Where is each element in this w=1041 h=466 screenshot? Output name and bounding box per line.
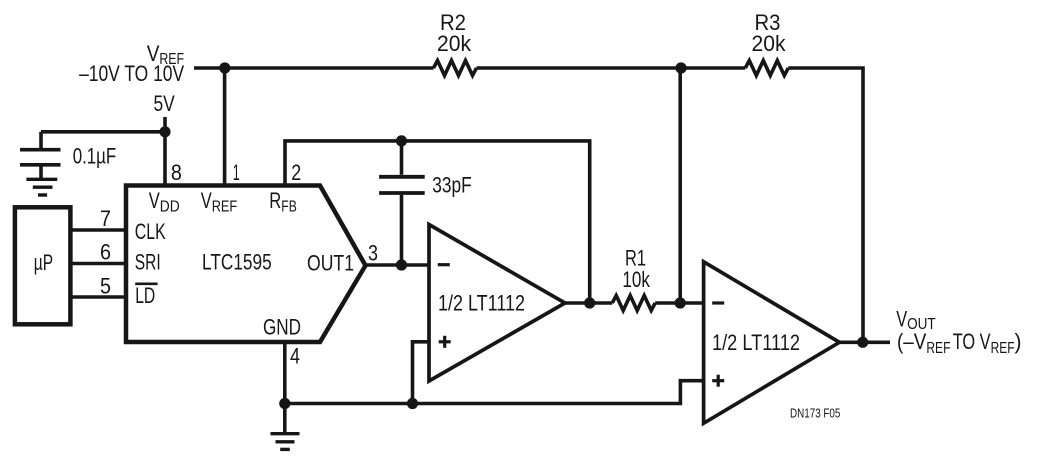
resistor R2 — [434, 61, 477, 76]
junction ground bus at pin 4 — [279, 398, 290, 409]
svg-text:10k: 10k — [622, 267, 650, 292]
wire pin 2 RFB to feedback rail — [285, 141, 590, 303]
resistor R1 — [612, 296, 655, 311]
junction ground bus at U2 — [407, 398, 418, 409]
svg-text:DD: DD — [160, 198, 180, 215]
svg-text:5V: 5V — [154, 91, 176, 116]
capacitor C1 0.1uF — [20, 132, 61, 178]
wire U3 non-inverting input to ground bus — [285, 381, 704, 404]
svg-text:–10V TO 10V: –10V TO 10V — [79, 61, 184, 86]
wire uP to LD pin 5 — [72, 295, 126, 299]
wire top mid node down to R1 node — [678, 68, 682, 303]
svg-text:1/2 LT1112: 1/2 LT1112 — [438, 291, 525, 316]
svg-text:(–V: (–V — [897, 329, 927, 354]
node VOUT label — [896, 306, 1021, 357]
junction top mid node — [675, 62, 686, 73]
resistor R3 — [745, 61, 788, 76]
wire 5V node to capacitor C1 — [41, 130, 165, 134]
wire U3 output to VOUT — [839, 340, 890, 344]
U3 non-inverting input symbol — [712, 375, 724, 387]
wire GND pin 4 down — [283, 342, 287, 404]
svg-text:V: V — [201, 188, 212, 213]
svg-text:µP: µP — [34, 250, 53, 275]
svg-text:V: V — [896, 306, 907, 331]
svg-text:8: 8 — [171, 160, 182, 185]
junction U2 output node — [584, 297, 595, 308]
wire R1 to op-amp U3 inverting input — [655, 301, 703, 305]
svg-text:LTC1595: LTC1595 — [202, 250, 272, 275]
label R2 20k — [437, 10, 472, 56]
ground under pin 4 — [271, 404, 300, 450]
svg-text:REF: REF — [926, 340, 950, 357]
svg-text:DN173 F05: DN173 F05 — [790, 406, 840, 421]
wire top rail VREF to R2 — [194, 66, 434, 70]
svg-text:4: 4 — [290, 343, 300, 368]
wire uP to CLK pin 7 — [72, 228, 126, 232]
svg-text:1/2 LT1112: 1/2 LT1112 — [712, 330, 800, 355]
wire R2 to R3 — [477, 66, 746, 70]
wire U2 non-inverting input to ground bus — [413, 342, 430, 404]
U2 inverting input symbol — [438, 263, 450, 266]
svg-text:7: 7 — [100, 206, 111, 231]
svg-text:3: 3 — [368, 241, 378, 266]
wire R3 to output node — [788, 68, 863, 342]
svg-text:20k: 20k — [437, 31, 472, 56]
svg-text:2: 2 — [291, 160, 301, 185]
svg-text:REF: REF — [991, 340, 1015, 357]
wire VREF node down to pin 1 — [223, 68, 227, 186]
wire uP to SRI pin 6 — [72, 262, 126, 266]
junction R1 output node — [675, 297, 686, 308]
pin VREF label — [201, 188, 238, 215]
svg-text:CLK: CLK — [135, 219, 166, 244]
svg-text:GND: GND — [263, 315, 301, 340]
svg-text:1: 1 — [233, 160, 240, 185]
pin RFB label — [269, 188, 297, 215]
junction VREF node — [219, 62, 230, 73]
wire U2 output to R1 — [565, 301, 612, 305]
svg-text:LD: LD — [135, 283, 155, 308]
U3 inverting input symbol — [712, 301, 724, 304]
junction VOUT node — [857, 337, 868, 348]
label R1 10k — [622, 246, 650, 293]
capacitor C2 33pF — [379, 141, 425, 265]
svg-text:SRI: SRI — [135, 250, 161, 275]
junction 5V node — [159, 126, 170, 137]
svg-text:6: 6 — [100, 240, 111, 265]
svg-text:REF: REF — [212, 198, 238, 215]
svg-text:FB: FB — [281, 198, 297, 215]
svg-text:OUT1: OUT1 — [307, 251, 354, 276]
op-amp U3 1/2 LT1112 — [704, 262, 840, 424]
svg-text:V: V — [149, 188, 160, 213]
wire 5V to pin 8 — [163, 117, 167, 186]
pin VDD label — [149, 188, 180, 215]
svg-text:R: R — [269, 188, 281, 213]
node VREF label — [79, 41, 184, 86]
DAC U1 LTC1595 body — [126, 186, 366, 343]
junction OUT1 node — [396, 259, 407, 270]
U2 non-inverting input symbol — [439, 336, 451, 348]
microprocessor block uP — [15, 207, 71, 324]
svg-text:): ) — [1015, 329, 1022, 354]
svg-text:0.1µF: 0.1µF — [73, 143, 117, 168]
svg-text:33pF: 33pF — [432, 173, 471, 198]
op-amp U2 1/2 LT1112 — [429, 225, 565, 382]
label R3 20k — [752, 10, 787, 56]
svg-text:TO V: TO V — [953, 329, 991, 354]
junction feedback top node — [396, 135, 407, 146]
ground under C1 — [26, 179, 57, 195]
svg-text:20k: 20k — [752, 31, 787, 56]
wire OUT1 to op-amp U2 inverting input — [366, 263, 430, 267]
pin LD label with overbar — [135, 283, 157, 308]
svg-text:5: 5 — [100, 274, 111, 299]
